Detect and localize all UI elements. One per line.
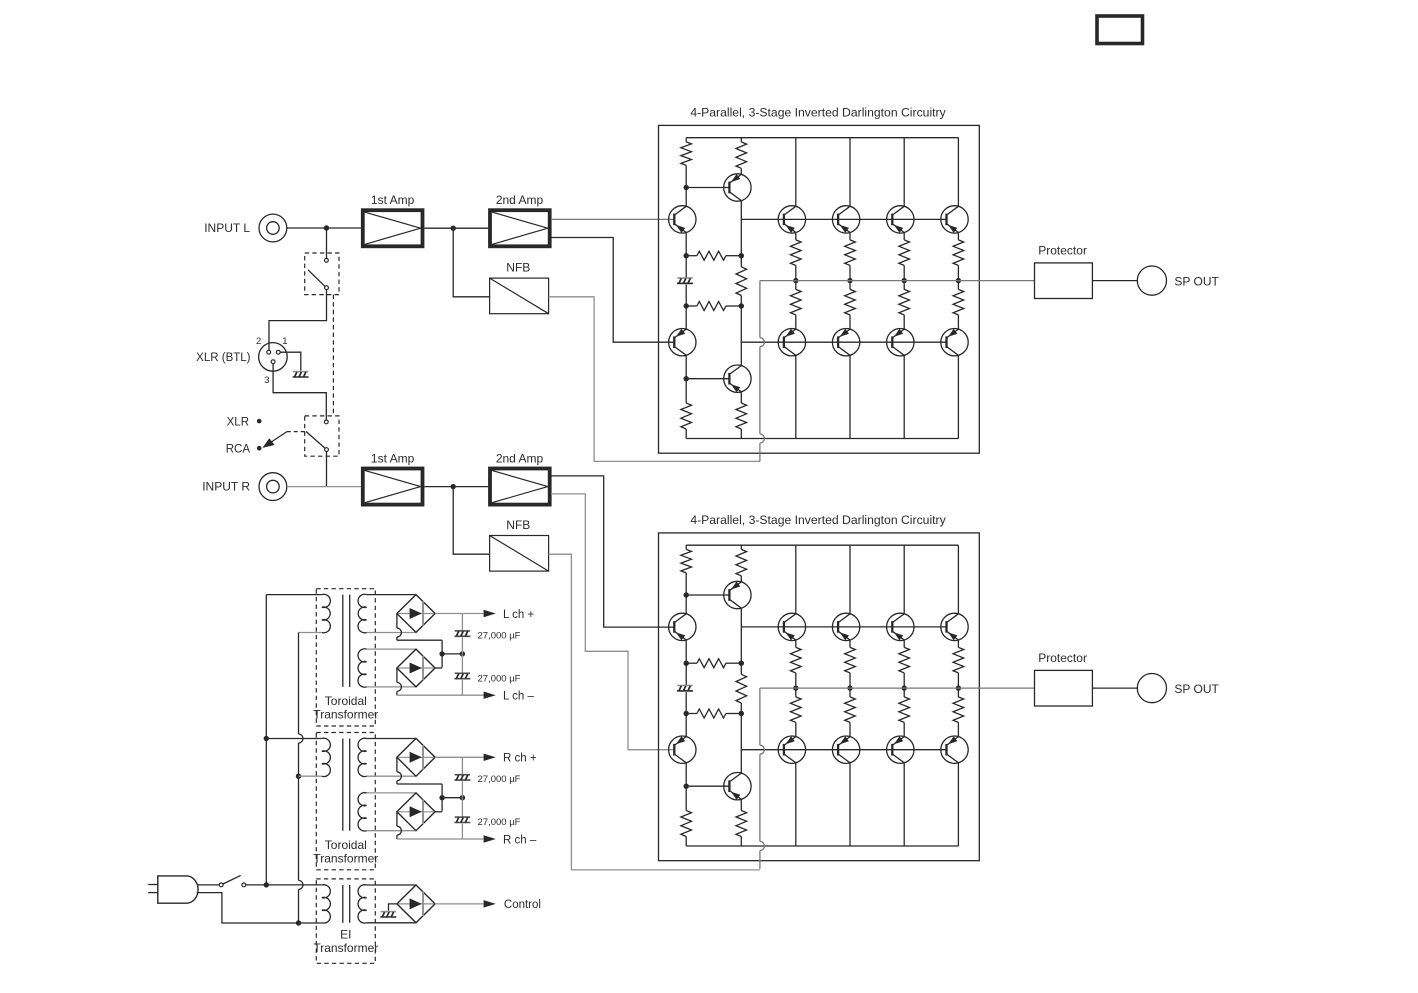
resistor (bias bottom, R block) bbox=[685, 786, 687, 810]
svg-text:NFB: NFB bbox=[506, 518, 530, 532]
resistor (emitter+ 1, L block) bbox=[795, 233, 797, 240]
wire (Q3 base) bbox=[686, 594, 729, 596]
resistor (mid, R block) bbox=[740, 663, 742, 674]
node bbox=[793, 685, 798, 690]
resistor (driver top, L block) bbox=[740, 138, 742, 142]
wire bbox=[740, 201, 742, 256]
svg-text:2nd Amp: 2nd Amp bbox=[496, 451, 544, 465]
node bbox=[264, 736, 269, 741]
wire (center tap) bbox=[396, 757, 398, 772]
wire (base rail -) bbox=[741, 341, 946, 343]
resistor (bias top, R block) bbox=[685, 545, 687, 549]
wire bbox=[273, 364, 326, 420]
transistor Q4 (pre-driver-, R block) bbox=[724, 773, 751, 800]
wire bbox=[1092, 687, 1137, 689]
wire (output rail) bbox=[760, 280, 1035, 282]
wire (collector) bbox=[957, 355, 959, 438]
winding (primary) bbox=[322, 594, 331, 632]
svg-text:SP OUT: SP OUT bbox=[1174, 274, 1219, 288]
wire (collector) bbox=[903, 545, 905, 614]
node (junction R) bbox=[451, 484, 456, 489]
wire bbox=[367, 830, 416, 832]
node bbox=[793, 278, 798, 283]
wire bbox=[269, 290, 327, 351]
node bbox=[684, 661, 689, 666]
capacitor 27,000uF (L ch +) bbox=[455, 630, 470, 632]
wire (collector) bbox=[795, 355, 797, 438]
node bbox=[296, 920, 301, 925]
node bbox=[264, 882, 269, 887]
connector INPUT L (RCA jack) bbox=[259, 214, 287, 242]
wire (DC+ out) bbox=[435, 613, 484, 615]
transistor Q1 (L block input+) bbox=[669, 206, 696, 233]
wire (feedback tap vertical) bbox=[759, 281, 761, 338]
wire bbox=[246, 884, 267, 886]
transistor Q3 (pre-driver+, R block) bbox=[724, 581, 751, 608]
node bbox=[684, 711, 689, 716]
wire (cap link) bbox=[442, 653, 462, 655]
wire (selector arrow) bbox=[271, 432, 287, 443]
wire bbox=[1092, 280, 1137, 282]
wire (bridge5 left -> ground) bbox=[389, 904, 397, 911]
transformer enclosure (dashed) bbox=[316, 733, 375, 870]
wire bbox=[461, 781, 463, 797]
wire (Q4 base) bbox=[686, 785, 729, 787]
transistor Q7 (output+ 3, R block) bbox=[887, 613, 914, 640]
resistor (inter-stage link 1, L block) bbox=[686, 255, 697, 257]
resistor (emitter- 2, L block) bbox=[849, 281, 851, 290]
switch (power) bbox=[219, 883, 223, 887]
node (XLR indicator dot) bbox=[257, 419, 262, 424]
svg-text:EI: EI bbox=[340, 928, 351, 942]
wire bbox=[461, 654, 463, 673]
wire bbox=[685, 714, 687, 737]
wire (collector) bbox=[795, 138, 797, 207]
resistor (driver bottom, L block) bbox=[740, 392, 742, 403]
wire bbox=[326, 228, 328, 258]
resistor (inter-stage link 2, L block) bbox=[686, 305, 697, 307]
wire (bus1) bbox=[265, 595, 267, 885]
amplifier 1st Amp R bbox=[363, 469, 423, 505]
wire bbox=[367, 775, 416, 777]
wire (selector arrow, dashed) bbox=[287, 431, 305, 433]
resistor (emitter+ 4, L block) bbox=[957, 233, 959, 240]
wire bbox=[685, 188, 687, 207]
wire (collector) bbox=[957, 545, 959, 614]
wire (NFB L feedback) bbox=[549, 297, 760, 462]
wire (collector) bbox=[849, 545, 851, 614]
wire (base rail +) bbox=[741, 218, 946, 220]
transistor Q5 (output+ 1, L block) bbox=[778, 206, 805, 233]
wire bbox=[461, 824, 463, 839]
resistor (emitter+ 3, L block) bbox=[903, 233, 905, 240]
wire (feedback tap vertical) bbox=[759, 688, 761, 745]
block outline (L block) bbox=[659, 125, 980, 453]
resistor (emitter+ 4, R block) bbox=[957, 640, 959, 647]
svg-text:L ch +: L ch + bbox=[503, 609, 535, 621]
transistor Q6 (output+ 2, R block) bbox=[832, 613, 859, 640]
wire (cap link) bbox=[442, 797, 462, 799]
connector INPUT R (RCA jack) bbox=[259, 473, 287, 501]
transistor Q11 (output- 3, L block) bbox=[887, 329, 914, 356]
transistor Q4 (pre-driver-, L block) bbox=[724, 365, 751, 392]
wire (2nd Amp R out+) bbox=[551, 476, 675, 627]
svg-text:Transformer: Transformer bbox=[313, 851, 378, 865]
svg-text:L ch –: L ch – bbox=[503, 691, 535, 703]
resistor (emitter- 3, R block) bbox=[903, 688, 905, 697]
wire (2nd Amp R out-) bbox=[551, 494, 675, 750]
network NFB L bbox=[490, 278, 549, 314]
winding (secondary 1 L ch +) bbox=[358, 594, 367, 633]
wire bbox=[367, 648, 416, 650]
switch S1a (XLR/RCA select, L) bbox=[305, 253, 339, 295]
linkage (ganged switch, dashed) bbox=[332, 295, 334, 416]
svg-text:1st Amp: 1st Amp bbox=[371, 193, 415, 207]
resistor (emitter- 4, L block) bbox=[957, 281, 959, 290]
wire bbox=[685, 256, 687, 278]
resistor (emitter- 1, L block) bbox=[795, 281, 797, 290]
wire bbox=[280, 352, 301, 370]
svg-text:XLR (BTL): XLR (BTL) bbox=[196, 352, 250, 364]
svg-text:INPUT R: INPUT R bbox=[202, 480, 250, 494]
arrow bbox=[484, 900, 496, 908]
winding (secondary 1 R ch +) bbox=[358, 738, 367, 776]
arrow bbox=[484, 610, 496, 617]
wire (Q3 base) bbox=[686, 187, 729, 189]
svg-text:4-Parallel, 3-Stage Inverted D: 4-Parallel, 3-Stage Inverted Darlington … bbox=[690, 513, 946, 527]
transistor Q1 (R block input+) bbox=[669, 613, 696, 640]
svg-text:27,000 µF: 27,000 µF bbox=[478, 630, 521, 641]
wire bbox=[326, 452, 328, 487]
resistor (emitter+ 2, L block) bbox=[849, 233, 851, 240]
svg-text:Transformer: Transformer bbox=[313, 941, 378, 955]
winding (EI primary) bbox=[322, 885, 331, 923]
rectifier bridge (L ch –) bbox=[397, 649, 435, 687]
wire (V+ rail) bbox=[686, 137, 958, 139]
wire (collector) bbox=[903, 355, 905, 438]
transistor Q8 (output+ 4, R block) bbox=[941, 613, 968, 640]
transistor Q2 (R block input-) bbox=[669, 736, 696, 763]
transistor Q9 (output- 1, R block) bbox=[778, 736, 805, 763]
winding (EI secondary) bbox=[358, 885, 367, 923]
wire (V- rail) bbox=[686, 845, 958, 847]
wire bbox=[299, 922, 322, 924]
wire bbox=[453, 487, 489, 555]
rectifier bridge (L ch +) bbox=[397, 595, 435, 633]
rectifier bridge (control) bbox=[397, 885, 435, 923]
wire (bus1 -> primary2 top) bbox=[266, 738, 322, 740]
wire bbox=[266, 884, 322, 886]
transistor Q11 (output- 3, R block) bbox=[887, 736, 914, 763]
transistor Q7 (output+ 3, L block) bbox=[887, 206, 914, 233]
node bbox=[902, 685, 907, 690]
capacitor 27,000uF (L ch –) bbox=[455, 672, 470, 674]
svg-text:NFB: NFB bbox=[506, 260, 530, 274]
wire (center tap) bbox=[396, 614, 398, 629]
transistor Q10 (output- 2, R block) bbox=[832, 736, 859, 763]
wire bbox=[287, 486, 361, 488]
svg-text:Protector: Protector bbox=[1038, 243, 1087, 257]
resistor (driver bottom, R block) bbox=[740, 799, 742, 810]
wire bbox=[740, 306, 742, 366]
node bbox=[739, 253, 744, 258]
node (junction at input L) bbox=[324, 225, 329, 230]
network NFB R bbox=[490, 536, 549, 572]
transformer enclosure (dashed) bbox=[316, 589, 375, 726]
svg-text:Transformer: Transformer bbox=[313, 708, 378, 722]
switch S1b (XLR/RCA select, R) bbox=[305, 416, 339, 456]
svg-text:1st Amp: 1st Amp bbox=[371, 451, 415, 465]
svg-text:XLR: XLR bbox=[227, 416, 249, 428]
transistor Q10 (output- 2, L block) bbox=[832, 329, 859, 356]
node bbox=[847, 278, 852, 283]
connector AC plug bbox=[158, 876, 198, 903]
wire bbox=[461, 757, 463, 774]
resistor (emitter- 1, R block) bbox=[795, 688, 797, 697]
wire (collector) bbox=[903, 138, 905, 207]
resistor (mid, L block) bbox=[740, 256, 742, 267]
svg-text:27,000 µF: 27,000 µF bbox=[478, 817, 521, 828]
block outline (R block) bbox=[659, 533, 980, 861]
wire (bus2) bbox=[298, 633, 300, 735]
wire bbox=[367, 632, 416, 634]
node bbox=[439, 651, 444, 656]
connector XLR (BTL) bbox=[259, 343, 288, 372]
wire bbox=[740, 714, 742, 774]
frame box (corner mark) bbox=[1097, 16, 1143, 44]
wire (collector) bbox=[849, 138, 851, 207]
connector SP OUT bbox=[1137, 266, 1166, 295]
transistor Q12 (output- 4, L block) bbox=[941, 329, 968, 356]
capacitor 27,000uF (R ch –) bbox=[455, 816, 470, 818]
protector relay box bbox=[1035, 670, 1093, 706]
resistor (bias bottom, L block) bbox=[685, 379, 687, 403]
wire bbox=[461, 680, 463, 695]
wire bbox=[461, 614, 463, 631]
svg-text:Control: Control bbox=[504, 899, 541, 911]
winding (secondary 2 R ch –) bbox=[358, 793, 367, 831]
wire (collector) bbox=[903, 763, 905, 846]
wire (Q4 base) bbox=[686, 378, 729, 380]
wire (base rail -) bbox=[741, 749, 946, 751]
wire (bus1 -> primary1 top) bbox=[266, 594, 322, 596]
amplifier 2nd Amp L bbox=[490, 210, 550, 246]
winding (secondary 2 L ch –) bbox=[358, 649, 367, 687]
wire bbox=[461, 798, 463, 817]
wire bbox=[367, 686, 416, 688]
winding (primary) bbox=[322, 738, 331, 776]
wire (2nd Amp L out-) bbox=[551, 238, 675, 343]
node bbox=[460, 795, 465, 800]
wire (output rail) bbox=[760, 687, 1035, 689]
svg-text:1: 1 bbox=[282, 336, 287, 347]
wire bbox=[367, 594, 416, 596]
svg-text:RCA: RCA bbox=[226, 443, 251, 455]
svg-text:INPUT L: INPUT L bbox=[204, 221, 250, 235]
svg-text:2nd Amp: 2nd Amp bbox=[496, 193, 544, 207]
wire (collector) bbox=[957, 138, 959, 207]
wire (NFB R feedback) bbox=[549, 554, 760, 870]
node bbox=[956, 685, 961, 690]
rectifier bridge (R ch –) bbox=[397, 793, 435, 831]
wire bbox=[367, 922, 416, 924]
wire bbox=[685, 595, 687, 614]
wire bbox=[367, 792, 416, 794]
node bbox=[739, 711, 744, 716]
resistor (inter-stage link 2, R block) bbox=[686, 713, 697, 715]
resistor (bias top, L block) bbox=[685, 138, 687, 142]
node bbox=[460, 651, 465, 656]
wire bbox=[367, 738, 416, 740]
wire bbox=[685, 663, 687, 685]
wire (V- rail) bbox=[686, 438, 958, 440]
ground (mid divider, L block) bbox=[677, 277, 692, 279]
wire (control out) bbox=[435, 903, 484, 905]
node bbox=[956, 278, 961, 283]
node bbox=[684, 253, 689, 258]
wire (DC+ out) bbox=[435, 756, 484, 758]
amplifier 2nd Amp R bbox=[490, 469, 550, 505]
wire bbox=[740, 608, 742, 663]
transistor Q6 (output+ 2, L block) bbox=[832, 206, 859, 233]
resistor (driver top, R block) bbox=[740, 545, 742, 549]
node bbox=[684, 376, 689, 381]
svg-text:2: 2 bbox=[256, 336, 261, 347]
wire (collector) bbox=[849, 763, 851, 846]
ground (XLR pin 1) bbox=[293, 371, 308, 373]
capacitor 27,000uF (R ch +) bbox=[455, 774, 470, 776]
svg-text:SP OUT: SP OUT bbox=[1174, 682, 1219, 696]
svg-text:R ch –: R ch – bbox=[503, 834, 537, 846]
arrow bbox=[484, 754, 496, 761]
wire (V+ rail) bbox=[686, 544, 958, 546]
svg-text:27,000 µF: 27,000 µF bbox=[478, 673, 521, 684]
wire bbox=[453, 228, 489, 297]
wire bbox=[197, 893, 299, 923]
transistor Q12 (output- 4, R block) bbox=[941, 736, 968, 763]
wire bbox=[424, 486, 488, 488]
resistor (emitter+ 3, R block) bbox=[903, 640, 905, 647]
wire (base rail +) bbox=[741, 626, 946, 628]
arrow bbox=[484, 692, 496, 699]
wire (DC- out) bbox=[396, 668, 398, 682]
rectifier bridge (R ch +) bbox=[397, 738, 435, 776]
core (EI) bbox=[342, 885, 344, 923]
wire (collector) bbox=[849, 355, 851, 438]
node bbox=[296, 774, 301, 779]
resistor (emitter- 2, R block) bbox=[849, 688, 851, 697]
svg-text:3: 3 bbox=[264, 375, 269, 386]
transistor Q5 (output+ 1, R block) bbox=[778, 613, 805, 640]
connector SP OUT bbox=[1137, 674, 1166, 703]
ground (mid divider, R block) bbox=[677, 685, 692, 687]
resistor (emitter- 4, R block) bbox=[957, 688, 959, 697]
resistor (emitter- 3, L block) bbox=[903, 281, 905, 290]
node bbox=[739, 661, 744, 666]
transistor Q8 (output+ 4, L block) bbox=[941, 206, 968, 233]
protector relay box bbox=[1035, 263, 1093, 299]
wire bbox=[198, 884, 220, 886]
ground (control rect) bbox=[381, 911, 396, 913]
resistor (inter-stage link 1, R block) bbox=[686, 662, 697, 664]
wire (collector) bbox=[795, 545, 797, 614]
svg-text:Protector: Protector bbox=[1038, 651, 1087, 665]
wire bbox=[287, 227, 361, 229]
arrow bbox=[484, 835, 496, 842]
wire (2nd Amp L out+) bbox=[551, 218, 675, 220]
node bbox=[847, 685, 852, 690]
svg-text:27,000 µF: 27,000 µF bbox=[478, 774, 521, 785]
resistor (emitter+ 2, R block) bbox=[849, 640, 851, 647]
core bbox=[342, 739, 344, 831]
svg-text:Toroidal: Toroidal bbox=[325, 694, 367, 708]
node bbox=[684, 303, 689, 308]
wire (bus2 -> primary2 bottom) bbox=[299, 775, 322, 777]
wire (DC- out) bbox=[396, 812, 398, 826]
node bbox=[902, 278, 907, 283]
wire (primary1 bottom -> bus2) bbox=[299, 632, 322, 634]
node bbox=[684, 185, 689, 190]
wire bbox=[424, 227, 488, 229]
wire bbox=[461, 638, 463, 654]
wire (collector) bbox=[957, 763, 959, 846]
amplifier 1st Amp L bbox=[363, 210, 423, 246]
node bbox=[684, 784, 689, 789]
svg-text:Toroidal: Toroidal bbox=[325, 838, 367, 852]
svg-text:R ch +: R ch + bbox=[503, 753, 537, 765]
core bbox=[342, 595, 344, 687]
transistor Q2 (L block input-) bbox=[669, 329, 696, 356]
transistor Q9 (output- 1, L block) bbox=[778, 329, 805, 356]
wire bbox=[367, 884, 416, 886]
svg-text:4-Parallel, 3-Stage Inverted D: 4-Parallel, 3-Stage Inverted Darlington … bbox=[690, 106, 946, 120]
node bbox=[684, 592, 689, 597]
transistor Q3 (pre-driver+, L block) bbox=[724, 174, 751, 201]
node bbox=[739, 303, 744, 308]
transformer enclosure EI (dashed) bbox=[316, 879, 375, 963]
node (junction L) bbox=[451, 226, 456, 231]
wire (collector) bbox=[795, 763, 797, 846]
wire bbox=[685, 306, 687, 329]
resistor (emitter+ 1, R block) bbox=[795, 640, 797, 647]
node (RCA indicator dot) bbox=[257, 446, 262, 451]
node bbox=[439, 795, 444, 800]
